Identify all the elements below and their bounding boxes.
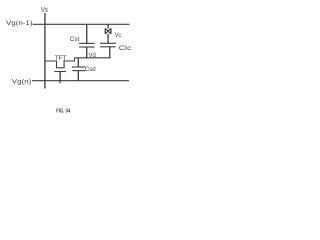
wire Vg(n) row line bbox=[32, 80, 129, 82]
wire Vc element top stem bbox=[107, 24, 109, 28]
wire Clc bottom stem bbox=[109, 47, 111, 58]
svg-text:Vs: Vs bbox=[41, 7, 48, 14]
svg-text:FIG. 34: FIG. 34 bbox=[56, 108, 70, 114]
svg-text:Vd: Vd bbox=[89, 52, 97, 59]
wire Vg(n-1) row line bbox=[33, 23, 130, 25]
transistor TFT gate electrode bbox=[54, 71, 66, 73]
wire Cst bottom stem bbox=[86, 47, 88, 58]
svg-text:Csd: Csd bbox=[85, 66, 96, 73]
wire Vs column bbox=[44, 13, 46, 89]
transistor TFT channel path bbox=[45, 58, 75, 68]
wire Vc to Clc stem bbox=[107, 34, 109, 44]
svg-text:Vc: Vc bbox=[115, 32, 121, 39]
svg-text:Clc: Clc bbox=[119, 45, 132, 52]
svg-text:Vg(n-1): Vg(n-1) bbox=[6, 20, 33, 27]
capacitor Csd bbox=[72, 67, 85, 71]
svg-text:Vg(n): Vg(n) bbox=[12, 78, 32, 85]
wire Vd node line bbox=[75, 57, 111, 59]
svg-text:Cst: Cst bbox=[70, 36, 80, 43]
wire Csd bottom stem bbox=[77, 71, 79, 81]
wire Cst top stem bbox=[86, 24, 88, 43]
capacitor Cst bbox=[79, 43, 94, 47]
capacitor Clc bbox=[100, 43, 116, 47]
nonlinear element Vc (bowtie symbol) bbox=[105, 28, 111, 33]
transistor TFT gate stem bbox=[59, 72, 61, 84]
wire Csd top stem bbox=[77, 58, 79, 67]
